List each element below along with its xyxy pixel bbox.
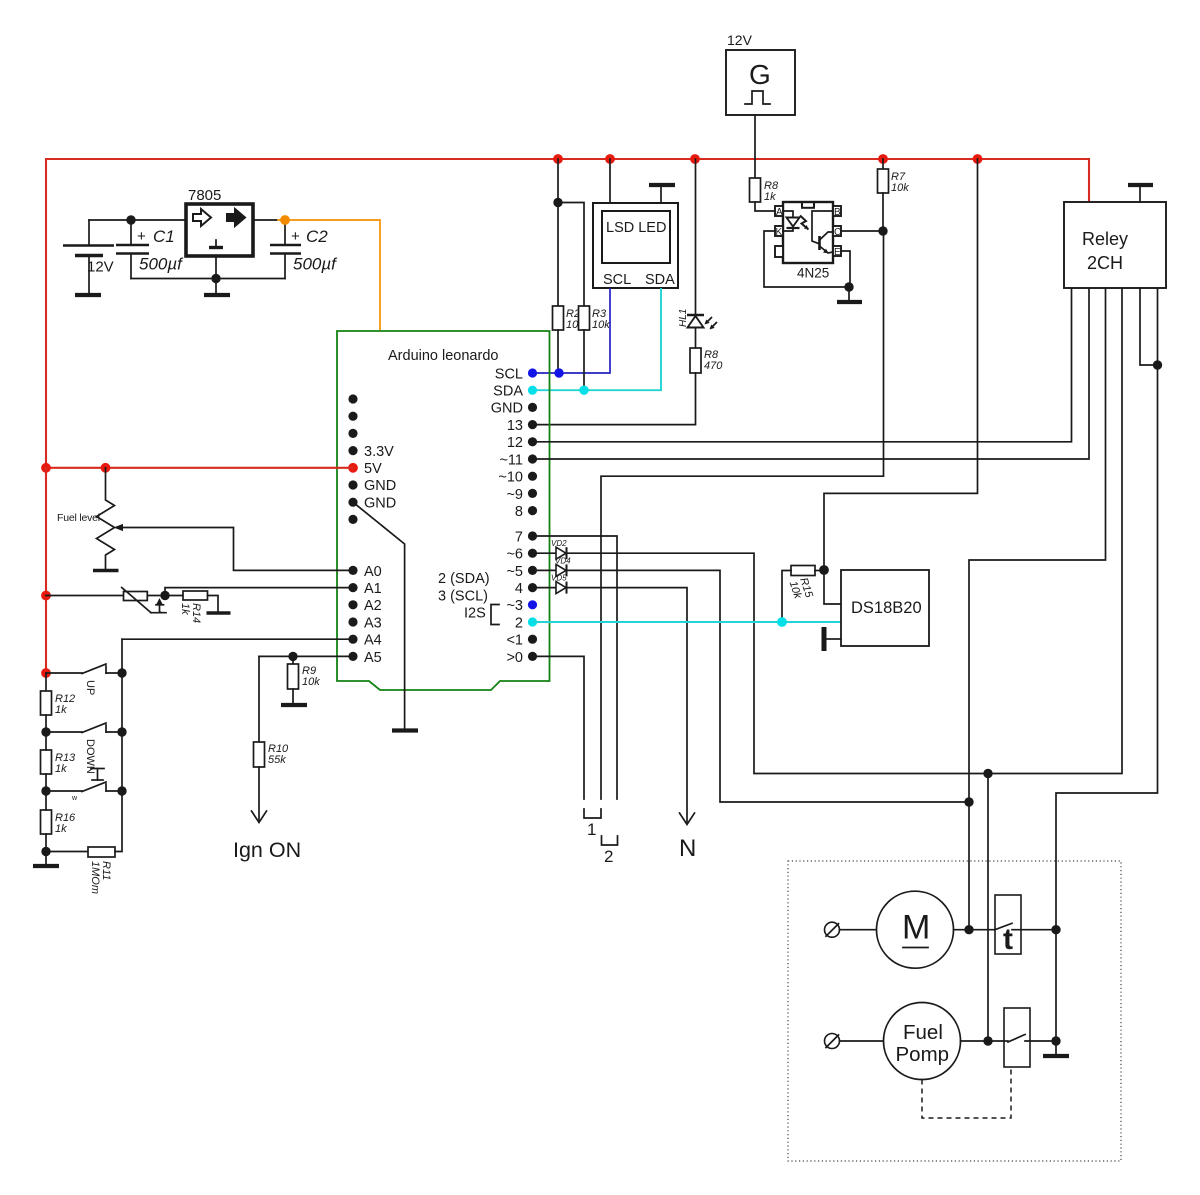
- svg-text:A5: A5: [364, 650, 382, 666]
- wire motor to t switch: [954, 929, 996, 931]
- svg-text:12V: 12V: [87, 259, 114, 276]
- node rail junction R7: [878, 154, 888, 164]
- arduino U1 leonardo box: [337, 331, 550, 690]
- ground DS18B20: [822, 627, 842, 651]
- svg-text:1k: 1k: [179, 603, 191, 615]
- svg-text:VD5: VD5: [551, 574, 567, 583]
- node KE junction: [844, 282, 853, 291]
- svg-text:E: E: [834, 247, 841, 258]
- svg-text:13: 13: [507, 418, 523, 434]
- wire pin11 to relay pin2: [533, 288, 1089, 459]
- node pin6net branch junction: [983, 769, 992, 778]
- resistor R15 10k: [782, 566, 824, 623]
- wire R2 R3 pullup supply: [558, 159, 584, 306]
- node orange output: [280, 215, 290, 225]
- svg-text:A2: A2: [364, 598, 382, 614]
- svg-text:A1: A1: [364, 581, 382, 597]
- ground battery: [75, 293, 101, 297]
- svg-text:Ign ON: Ign ON: [233, 838, 301, 862]
- wire battery to 7805 input: [89, 219, 253, 221]
- connector bracket 2: [602, 836, 618, 866]
- wire pin6net branch to pump: [987, 774, 989, 1042]
- relay module Reley 2CH: [1064, 202, 1166, 288]
- wire pin0 down: [533, 656, 584, 799]
- svg-text:1k: 1k: [764, 191, 776, 203]
- svg-text:2: 2: [604, 847, 613, 866]
- wire 5V to arduino: [46, 467, 353, 469]
- node rail junction DS18B20 supply: [973, 154, 983, 164]
- svg-text:A3: A3: [364, 616, 382, 632]
- wire A4 net: [122, 638, 353, 640]
- wire relay pin6 to pump switch gnd: [1056, 288, 1158, 1041]
- ground 4N25: [837, 287, 862, 302]
- wire gnd bus C1 C2: [131, 278, 285, 280]
- led HL1: [678, 159, 717, 348]
- wire G output: [754, 115, 756, 178]
- ground R9: [281, 689, 307, 705]
- svg-text:~9: ~9: [506, 487, 523, 503]
- resistor R9 10k: [288, 656, 321, 689]
- node DOWN right: [117, 727, 126, 736]
- wire R8 to 4N25 A: [755, 202, 775, 211]
- svg-text:~11: ~11: [499, 453, 523, 469]
- op-to 4N25 U3: [775, 202, 841, 281]
- wire pump switch out: [1025, 1040, 1056, 1042]
- display LSD LED: [593, 203, 678, 288]
- svg-text:~6: ~6: [506, 547, 523, 563]
- svg-text:VD4: VD4: [555, 557, 571, 566]
- wire relay pin5 jumper: [1140, 288, 1158, 365]
- svg-text:C2: C2: [306, 227, 328, 246]
- node C1 junction: [126, 215, 135, 224]
- resistor R11 1MOm: [88, 847, 115, 894]
- node thermistor row: [41, 591, 51, 601]
- node R3 sda junction: [579, 386, 588, 395]
- node A1 junction: [160, 591, 169, 600]
- thermal switch t: [995, 895, 1021, 956]
- node pullup branch: [553, 198, 562, 207]
- wire +5V top rail: [46, 159, 1089, 468]
- ground 7805: [204, 279, 230, 296]
- wire pin2 cyan to DS18B20: [533, 621, 841, 623]
- wire SCL net navy: [533, 288, 610, 373]
- svg-text:10k: 10k: [891, 182, 909, 194]
- svg-text:1k: 1k: [55, 704, 67, 716]
- arrow N head: [680, 813, 695, 825]
- node up row: [41, 668, 51, 678]
- svg-text:A4: A4: [364, 633, 382, 649]
- connector bracket 1: [584, 809, 601, 839]
- svg-text:1: 1: [587, 820, 596, 839]
- wire button column: [115, 639, 122, 851]
- svg-text:Fuel level: Fuel level: [57, 512, 100, 524]
- svg-text:HL1: HL1: [678, 309, 689, 327]
- svg-text:4: 4: [515, 581, 523, 597]
- wire R11 row: [46, 851, 88, 853]
- svg-text:Fuel: Fuel: [903, 1021, 943, 1044]
- svg-text:M: M: [902, 909, 930, 947]
- wire arduino internal gnd: [353, 502, 405, 728]
- node t switch junction: [1051, 925, 1060, 934]
- svg-text:470: 470: [704, 360, 723, 372]
- wire to DS18B20 pin1: [824, 570, 841, 604]
- svg-text:<1: <1: [506, 633, 523, 649]
- wire pin5 net: [567, 570, 970, 802]
- wire terminal to motor: [840, 929, 877, 931]
- wire pin6 net to relay pin4: [567, 288, 1123, 774]
- node C R7 junction: [878, 226, 887, 235]
- wire wiper to A0: [114, 524, 354, 571]
- svg-text:12: 12: [507, 435, 523, 451]
- thermistor Rt: [122, 588, 166, 613]
- svg-text:2: 2: [515, 616, 523, 632]
- svg-text:7805: 7805: [188, 187, 221, 204]
- switch DOWN: [46, 723, 122, 774]
- wire thermistor to junction: [148, 595, 184, 597]
- pump Fuel Pomp: [884, 1003, 961, 1080]
- node pump gnd junction: [1051, 1036, 1060, 1045]
- wire opto collector net down: [601, 231, 884, 799]
- svg-text:B: B: [834, 207, 841, 218]
- node set right: [117, 786, 126, 795]
- wire SDA net cyan: [533, 288, 661, 390]
- svg-text:K: K: [776, 227, 783, 238]
- resistor R8 1k: [750, 178, 779, 203]
- resistor R12 1k: [41, 673, 76, 732]
- resistor R16 1k: [41, 791, 77, 852]
- diode VD5: [533, 574, 567, 594]
- node 5V pot: [101, 463, 111, 473]
- resistor R2 10k: [553, 306, 585, 331]
- svg-text:+: +: [137, 228, 146, 245]
- switch SET: [46, 782, 122, 802]
- svg-text:A: A: [776, 207, 783, 218]
- label N: [679, 835, 696, 862]
- node gnd row: [41, 847, 50, 856]
- wire 4N25 K and E to ground: [764, 231, 850, 287]
- svg-text:7: 7: [515, 530, 523, 546]
- node R9 junction: [288, 652, 297, 661]
- svg-text:10k: 10k: [302, 676, 320, 688]
- svg-text:Pomp: Pomp: [896, 1043, 950, 1066]
- svg-text:w: w: [71, 795, 78, 802]
- svg-text:500µf: 500µf: [293, 255, 338, 274]
- ground buttons: [33, 852, 59, 867]
- svg-text:>0: >0: [506, 650, 523, 666]
- node set row: [41, 786, 50, 795]
- wire 7805 output orange to arduino vin: [253, 220, 380, 331]
- node rail junction LSD LED vcc: [605, 154, 615, 164]
- resistor R10 55k: [254, 656, 290, 820]
- diode VD4: [533, 557, 571, 577]
- terminal motor: [825, 922, 840, 937]
- ground LSD LED: [649, 185, 675, 203]
- button link symbol: [91, 769, 104, 781]
- svg-text:~5: ~5: [506, 564, 523, 580]
- svg-text:10k: 10k: [592, 319, 610, 331]
- svg-text:G: G: [749, 59, 771, 90]
- svg-text:SDA: SDA: [645, 272, 675, 288]
- wire HL1 to pin13: [533, 373, 696, 425]
- wire 7805 gnd to bus: [215, 256, 217, 279]
- svg-text:VD2: VD2: [551, 539, 567, 548]
- node 5V left: [41, 463, 51, 473]
- svg-text:LSD LED: LSD LED: [606, 220, 666, 236]
- diode VD2: [533, 539, 567, 559]
- wire pin12 to relay pin1: [533, 288, 1072, 442]
- wire A1 net: [165, 588, 353, 596]
- node rail junction HL1: [690, 154, 700, 164]
- wire pin7 down: [533, 536, 617, 799]
- svg-text:C1: C1: [153, 227, 175, 246]
- svg-text:1k: 1k: [55, 763, 67, 775]
- potentiometer fuel level: [57, 468, 115, 569]
- svg-text:DS18B20: DS18B20: [851, 599, 922, 617]
- wire thermistor row: [46, 595, 124, 597]
- svg-text:500µf: 500µf: [139, 255, 184, 274]
- svg-text:SCL: SCL: [495, 367, 523, 383]
- sensor DS18B20: [841, 570, 929, 646]
- pins arduino left column: [348, 394, 396, 666]
- label 2 SDA: [438, 571, 490, 587]
- wire relay pin3 to motor: [969, 288, 1106, 930]
- wire t switch to gnd line: [1012, 929, 1056, 931]
- svg-text:1k: 1k: [55, 823, 67, 835]
- arrow Ign ON: [233, 811, 301, 862]
- resistor R14 1k: [179, 591, 208, 623]
- node pin5 net join: [964, 797, 973, 806]
- generator G 12V: [726, 32, 795, 115]
- svg-text:2CH: 2CH: [1087, 253, 1123, 273]
- wire DS18B20 supply from rail: [824, 159, 978, 570]
- svg-text:~10: ~10: [498, 470, 523, 486]
- node relay pin56 junction: [1153, 360, 1162, 369]
- terminal pump: [825, 1034, 840, 1049]
- svg-text:2 (SDA): 2 (SDA): [438, 571, 490, 587]
- svg-text:55k: 55k: [268, 754, 286, 766]
- resistor R7 10k: [878, 159, 910, 231]
- ground relay top: [1128, 185, 1153, 202]
- ground R14: [207, 596, 231, 614]
- svg-text:GND: GND: [491, 401, 523, 417]
- resistor R13 1k: [41, 732, 77, 791]
- svg-text:1MOm: 1MOm: [89, 861, 101, 894]
- node pump drive junction: [983, 1036, 992, 1045]
- svg-text:~3: ~3: [506, 598, 523, 614]
- svg-text:N: N: [679, 835, 696, 862]
- svg-text:SCL: SCL: [603, 272, 631, 288]
- svg-text:+: +: [291, 228, 300, 245]
- wire pump to switch: [961, 1040, 1005, 1042]
- ground fuel level: [93, 569, 119, 573]
- svg-text:Arduino leonardo: Arduino leonardo: [388, 348, 498, 364]
- svg-text:GND: GND: [364, 496, 396, 512]
- wire A5 net: [259, 655, 353, 657]
- pins arduino right column: [491, 367, 537, 667]
- wire dashed pump link: [922, 1067, 1011, 1118]
- enclosure dotted box: [788, 861, 1121, 1161]
- node motor relay junction: [964, 925, 973, 934]
- wire pin4 net to N: [567, 588, 688, 822]
- svg-text:A0: A0: [364, 564, 382, 580]
- switch UP: [46, 664, 122, 695]
- ground pump: [1043, 1041, 1069, 1056]
- motor M: [877, 891, 954, 968]
- svg-text:12V: 12V: [727, 32, 753, 48]
- regulator U2 7805: [186, 187, 253, 256]
- wire terminal to pump: [840, 1040, 884, 1042]
- resistor R8 470: [690, 348, 723, 373]
- svg-text:3.3V: 3.3V: [364, 444, 394, 460]
- wire LSD LED vcc: [609, 159, 611, 203]
- wire 4N25 C to R7: [841, 230, 883, 232]
- wire R2 to SCL: [557, 330, 559, 373]
- wire 5V column lower: [45, 468, 47, 673]
- svg-text:UP: UP: [84, 680, 96, 695]
- svg-text:8: 8: [515, 504, 523, 520]
- svg-text:3 (SCL): 3 (SCL): [438, 589, 488, 605]
- svg-text:C: C: [834, 227, 841, 238]
- svg-text:SDA: SDA: [493, 384, 523, 400]
- node R15 top junction: [819, 565, 829, 575]
- node down row: [41, 727, 50, 736]
- svg-text:t: t: [1003, 923, 1013, 956]
- svg-text:4N25: 4N25: [797, 266, 829, 281]
- node rail junction R2R3: [553, 154, 563, 164]
- wire R3 to SDA: [583, 330, 585, 390]
- node R2 scl junction: [554, 368, 563, 377]
- battery BT 12V: [63, 220, 114, 293]
- ground arduino: [392, 728, 418, 732]
- label 3 SCL: [438, 589, 488, 605]
- label I2S bracket: [464, 605, 499, 625]
- pump switch box: [1004, 1008, 1030, 1067]
- svg-text:5V: 5V: [364, 461, 382, 477]
- node gnd bus junction: [211, 274, 220, 283]
- svg-text:Reley: Reley: [1082, 229, 1128, 249]
- node cyan R15 junction: [777, 617, 787, 627]
- capacitor C2 500uf: [270, 222, 338, 279]
- resistor R3 10k: [579, 306, 611, 331]
- node UP right: [117, 668, 126, 677]
- svg-text:I2S: I2S: [464, 606, 486, 622]
- capacitor C1 500uf: [116, 220, 184, 279]
- svg-text:GND: GND: [364, 478, 396, 494]
